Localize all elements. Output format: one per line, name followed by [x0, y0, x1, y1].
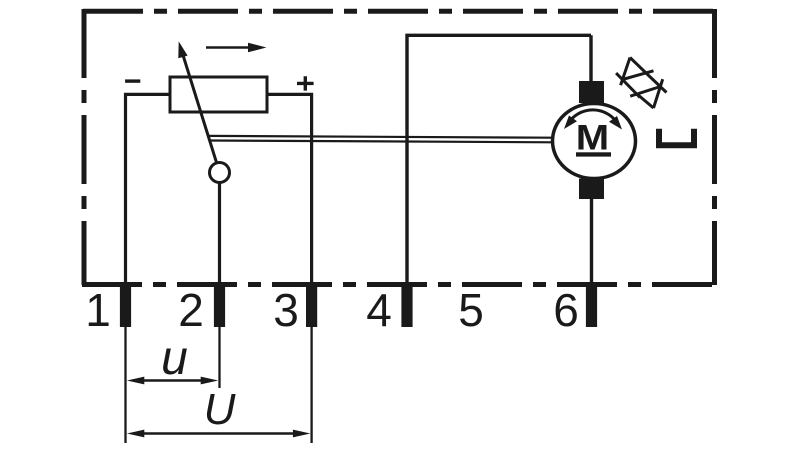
minus polarity label [125, 79, 140, 82]
motor rotation arc arrow [564, 110, 622, 130]
throttle valve symbol (crossed twin triangles) [616, 58, 666, 109]
terminal bar 2 [214, 282, 225, 327]
enclosure border right [712, 9, 717, 285]
wiper arm with arrow [178, 41, 216, 162]
terminal bar 1 [120, 282, 131, 327]
mechanical link (double line) wiper to motor [209, 136, 554, 138]
svg-text:2: 2 [178, 284, 204, 336]
terminal bar 6 [586, 282, 597, 327]
bracket symbol (fuel strainer) [659, 129, 694, 145]
wire: terminal 4 up and top rail to motor [405, 35, 591, 284]
svg-text:3: 3 [273, 284, 299, 336]
wire: terminal 1 to potentiometer minus end [124, 93, 170, 284]
motor brush bottom [579, 179, 604, 200]
dimension extension line at terminal 1 [124, 327, 126, 443]
motor brush top [579, 81, 604, 103]
svg-text:4: 4 [366, 284, 392, 336]
enclosure border bottom [82, 282, 717, 287]
wire: motor bottom to terminal 6 [590, 198, 593, 284]
motor letter underline [576, 152, 611, 156]
dimension extension line at terminal 2 [218, 327, 220, 388]
motor M circle [553, 104, 636, 179]
enclosure border left [82, 9, 87, 285]
svg-text:M: M [576, 119, 609, 158]
terminal bar 4 [401, 282, 412, 327]
wiper pivot circle [210, 163, 230, 183]
wire: pivot to terminal 2 [218, 183, 221, 285]
dimension extension line at terminal 3 [310, 327, 312, 443]
motor letter M [576, 119, 609, 158]
dimension arrow u [127, 377, 218, 385]
svg-text:U: U [204, 385, 236, 434]
svg-text:1: 1 [85, 284, 111, 336]
plus polarity label [297, 76, 314, 90]
wire: potentiometer plus end to terminal 3 [267, 93, 312, 284]
svg-text:u: u [161, 332, 188, 385]
svg-text:6: 6 [553, 284, 579, 336]
enclosure border top [83, 9, 715, 14]
direction arrow above potentiometer [206, 43, 267, 53]
dimension arrow U [127, 430, 311, 438]
potentiometer resistor track R [170, 77, 267, 112]
terminal bar 3 [306, 282, 317, 327]
svg-text:5: 5 [458, 284, 484, 336]
